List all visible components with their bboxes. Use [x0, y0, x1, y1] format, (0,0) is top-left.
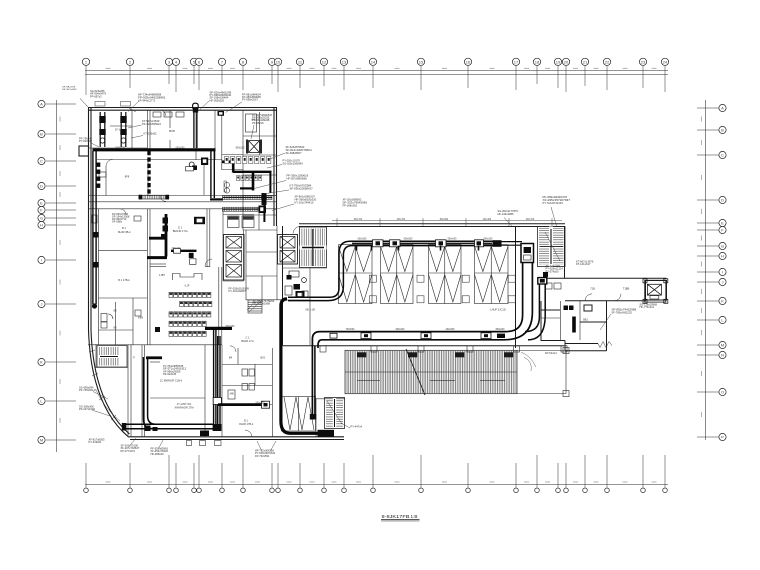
right dimension line [705, 100, 707, 440]
podium [173, 274, 203, 281]
svg-text:15: 15 [419, 59, 424, 64]
right wing riser duct [538, 278, 547, 284]
svg-text:E: E [40, 201, 43, 206]
column pads between AHUs [369, 275, 515, 303]
leader arcs terrace [521, 352, 536, 371]
annotation: below building centre [255, 450, 276, 458]
main riser duct (wide, white core) [312, 263, 532, 416]
wc fixtures left column [101, 314, 107, 322]
annotation: room mid-bottom block [163, 365, 187, 376]
urinal row [237, 176, 262, 181]
annotation: stair mid notes [229, 288, 250, 294]
svg-text:HF-968x20: HF-968x20 [151, 453, 165, 456]
dimension figures left [59, 117, 61, 122]
hall inner wall x=515 [515, 226, 517, 348]
elevator right wing end [643, 279, 668, 304]
small boxes below building [187, 441, 222, 446]
svg-text:16: 16 [466, 59, 471, 64]
top-right small rooms [242, 110, 244, 230]
annotation: room below corridor [112, 214, 130, 224]
svg-text:~1JF: ~1JF [184, 284, 190, 288]
exhaust bar south x205-232 [205, 327, 232, 330]
svg-text:BX1: BX1 [261, 356, 266, 360]
svg-text:D: D [721, 198, 724, 203]
band lower boundary [316, 398, 345, 400]
svg-text:P: P [721, 435, 724, 440]
interior lines wing rooms [541, 309, 560, 311]
svg-text:K: K [40, 360, 43, 365]
exhaust duct y404 [218, 403, 266, 406]
AHU units with zigzag coils [339, 245, 509, 304]
stair left of hall (vertical treads) [300, 227, 327, 268]
riser assembly 1 [100, 112, 105, 147]
svg-text:SF-907x483: SF-907x483 [62, 89, 77, 91]
svg-text:FP-168x362: FP-168x362 [343, 203, 358, 207]
left wall riser squares [97, 163, 101, 188]
main supply duct upper-left horizontal [93, 148, 216, 151]
svg-text:500x400: 500x400 [448, 238, 458, 240]
stair right of hall (horizontal treads) [538, 227, 566, 267]
svg-text:LHUF 2JC1D: LHUF 2JC1D [490, 308, 506, 312]
svg-text:AHU: AHU [251, 118, 257, 122]
svg-text:KT-101x749410: KT-101x749410 [295, 200, 314, 204]
VAV box top of main riser [521, 244, 534, 263]
svg-text:400x200: 400x200 [172, 248, 182, 250]
svg-text:FP-697x2: FP-697x2 [90, 95, 102, 98]
riser assembly 2 [121, 112, 126, 147]
small rooms right of elevators [246, 251, 277, 253]
partition top room band [88, 147, 147, 149]
riser duct x195 (double line) [194, 110, 197, 148]
annotation: top mid [210, 92, 232, 103]
annotation: far top-left [90, 90, 107, 98]
terrace outline right of band [517, 351, 566, 394]
annotation: above hall left [343, 198, 368, 208]
corridor walls [88, 195, 277, 197]
svg-text:PY-699x2057: PY-699x2057 [242, 99, 259, 102]
left dimension line [56, 100, 58, 452]
top dimension line [85, 70, 668, 72]
svg-text:8F05: 8F05 [169, 129, 175, 133]
dark marks bottom rooms [145, 426, 151, 432]
corner leader diagonal [80, 99, 89, 108]
svg-text:400-300: 400-300 [483, 219, 492, 221]
svg-text:M: M [721, 343, 724, 348]
bottom dimension line [85, 484, 668, 486]
annotation: small left [144, 132, 158, 136]
outer wall left edge [89, 108, 129, 437]
svg-text:T1BB: T1BB [623, 287, 630, 291]
hall interior dimension row [332, 218, 562, 226]
duct vertical x145 (double) [126, 357, 213, 429]
svg-text:12: 12 [322, 59, 327, 64]
right grid bubbles [719, 104, 726, 111]
bottom block partitions [141, 345, 143, 437]
dimension figures bottom [106, 481, 111, 483]
outer wall right edge of left wing [276, 108, 278, 226]
svg-text:D: D [40, 184, 43, 189]
svg-text:J: J [41, 302, 43, 307]
riser duct left vertical (double line) [93, 151, 96, 304]
top band interior extras [169, 110, 171, 128]
bottom grid ticks [85, 463, 87, 488]
svg-text:E: E [721, 221, 724, 226]
svg-text:HF-243x2985: HF-243x2985 [498, 212, 514, 216]
svg-text:24: 24 [663, 59, 668, 64]
leader curve bottom-left [96, 390, 120, 421]
svg-text:B 1 17B-k: B 1 17B-k [118, 278, 130, 282]
annotation: terrace level [545, 352, 557, 355]
svg-text:P: P [133, 356, 135, 360]
annotation: dim margin left [62, 87, 77, 92]
svg-text:B: B [721, 128, 724, 133]
svg-text:SF-636x20558417: SF-636x20558417 [290, 186, 314, 190]
svg-text:BHNJR 17l-k: BHNJR 17l-k [173, 229, 189, 233]
svg-text:J: J [722, 280, 724, 285]
left grid bubbles [38, 100, 45, 107]
svg-text:22: 22 [605, 59, 610, 64]
svg-text:1000x320: 1000x320 [115, 148, 126, 150]
svg-text:XF-944x11771: XF-944x11771 [138, 98, 156, 102]
exhaust duct west wall [281, 299, 318, 433]
annotation: band right leader [351, 426, 363, 429]
svg-text:I: I [41, 258, 42, 263]
svg-text:18: 18 [535, 59, 540, 64]
connector to VAV [502, 242, 523, 246]
outer wall top (left wing) [88, 107, 277, 109]
elevator lobby walls [222, 209, 224, 281]
svg-text:900x300: 900x300 [484, 238, 494, 240]
annotation: riser mid-left [142, 119, 161, 126]
svg-text:JF-1: JF-1 [115, 128, 121, 132]
svg-text:SG-525x1566945: SG-525x1566945 [283, 161, 304, 165]
svg-text:21: 21 [583, 59, 588, 64]
svg-text:700x500: 700x500 [346, 329, 356, 331]
svg-text:H: H [721, 254, 724, 259]
svg-text:800x320: 800x320 [236, 148, 246, 150]
svg-text:N: N [721, 353, 724, 358]
hall left wall [282, 226, 284, 345]
svg-text:C: C [721, 153, 724, 158]
AHU tall V coils bottom-left [282, 397, 316, 432]
svg-text:PY-447x4: PY-447x4 [351, 426, 363, 429]
top grid bubbles [82, 58, 89, 65]
room partitions mid band [97, 159, 148, 161]
svg-text:G: G [721, 244, 724, 249]
svg-text:800x200: 800x200 [496, 329, 506, 331]
annotation: above hall right [498, 209, 519, 216]
door arcs [205, 259, 212, 266]
svg-text:I: I [722, 270, 723, 275]
dark C fitting top of lecture room [194, 217, 205, 224]
dimension figures right [701, 117, 703, 122]
svg-text:K8B: K8B [138, 316, 143, 320]
right wing corridor top [541, 277, 667, 279]
svg-text:PF-709x30137: PF-709x30137 [79, 389, 97, 392]
small boxes above elevators [228, 216, 240, 228]
duct end blob [493, 240, 502, 247]
duct corner down x212.5 [211, 150, 214, 198]
svg-text:SF-785x0492225: SF-785x0492225 [612, 310, 633, 314]
annotation: wing corridor [576, 261, 594, 267]
annotation: top-left risers [138, 93, 166, 103]
svg-text:600x300: 600x300 [358, 238, 368, 240]
wc fixtures row dark dots [225, 157, 271, 164]
bottom grid bubbles [84, 488, 89, 493]
svg-text:HF-923x45: HF-923x45 [163, 373, 177, 376]
svg-text:14: 14 [371, 59, 376, 64]
dark fittings corridor east [259, 193, 267, 213]
svg-text:630x250: 630x250 [176, 148, 186, 150]
svg-text:HF-055x526: HF-055x526 [210, 99, 225, 102]
svg-text:8F8: 8F8 [125, 175, 130, 179]
vertical duct pair bottom-left block [214, 330, 220, 424]
hall top wall [299, 223, 565, 225]
riser squares x165 column [161, 218, 168, 239]
grille band A [223, 195, 273, 199]
svg-text:10: 10 [276, 59, 281, 64]
hall supply duct: equipment to top run [288, 241, 494, 300]
hall floor south wall [283, 345, 565, 347]
svg-text:XB 1-1B: XB 1-1B [305, 308, 315, 312]
svg-text:600x500: 600x500 [404, 238, 414, 240]
svg-text:1JB7: 1JB7 [159, 273, 165, 277]
svg-text:KT-195x92: KT-195x92 [144, 132, 158, 136]
svg-text:400-700: 400-700 [526, 219, 535, 221]
west equipment cluster [287, 275, 305, 298]
radial ticks on curved wall [89, 350, 116, 420]
svg-text:C: C [40, 159, 43, 164]
hall right wall [564, 226, 566, 278]
corner fitting with damper [201, 158, 208, 166]
svg-text:8HJR 3B-k: 8HJR 3B-k [118, 230, 131, 234]
duct size tags on top duct [115, 148, 505, 405]
branch stub into rooms y238 [149, 237, 167, 240]
svg-text:PF-077x672: PF-077x672 [121, 450, 136, 453]
misc dark risers left wall [93, 232, 160, 332]
svg-text:B81: B81 [583, 318, 588, 322]
band diagonal brace [406, 349, 425, 395]
svg-text:19: 19 [556, 59, 561, 64]
svg-text:71B: 71B [590, 287, 595, 291]
band top dark vents [357, 352, 514, 357]
svg-text:PY-716x0733134: PY-716x0733134 [543, 201, 564, 205]
svg-text:A: A [721, 106, 724, 111]
svg-text:8HJR 17B-k: 8HJR 17B-k [239, 422, 254, 426]
small dim marks in band [357, 380, 505, 382]
svg-text:A: A [40, 102, 43, 107]
svg-text:G: G [40, 216, 43, 221]
outer wall bottom (left wing) [128, 436, 344, 438]
svg-text:300-700: 300-700 [397, 219, 406, 221]
duct over lecture room [171, 250, 197, 252]
right wing end cap [646, 281, 667, 301]
annotation column: courtyard leaders [286, 145, 313, 155]
svg-text:XF-088x: XF-088x [112, 222, 123, 224]
stair small left-wing [97, 346, 127, 368]
annotation: bottom-left stack [79, 387, 97, 393]
svg-text:O: O [721, 390, 724, 395]
svg-text:PF-352x6: PF-352x6 [252, 122, 264, 125]
annotation: inside top-right rooms [252, 114, 273, 125]
elevator top-left wing [249, 141, 260, 153]
wc duct zigzag [222, 160, 235, 163]
right grid ticks [697, 107, 719, 109]
svg-text:KT-219x01: KT-219x01 [89, 441, 103, 444]
room labels [114, 118, 630, 426]
seminar room walls [206, 209, 208, 267]
svg-text:13: 13 [342, 59, 347, 64]
svg-text:800-900: 800-900 [440, 219, 449, 221]
svg-text:PF-227x1900: PF-227x1900 [79, 408, 96, 411]
svg-text:PY-101x02807: PY-101x02807 [229, 290, 247, 293]
svg-text:K: K [721, 299, 724, 304]
duct drop x148 (blocked wall) [147, 151, 150, 196]
svg-text:8-8JK17FB: 8-8JK17FB [382, 514, 410, 519]
svg-text:H: H [40, 223, 43, 228]
svg-text:M: M [40, 438, 43, 443]
annotation: right stair foot [546, 265, 564, 273]
annotation: top right [242, 94, 261, 102]
top grid ticks [85, 66, 87, 95]
svg-text:PF-310x835924: PF-310x835924 [142, 122, 161, 126]
rooms right column [243, 174, 277, 176]
svg-text:KT-141x617: KT-141x617 [576, 263, 591, 266]
svg-text:23: 23 [641, 59, 646, 64]
svg-text:XHNRHJIR 1TM: XHNRHJIR 1TM [174, 405, 193, 409]
stair small mid (lobby) [248, 300, 262, 313]
grille band B [223, 207, 259, 211]
svg-text:HF-057x9860960: HF-057x9860960 [287, 176, 308, 180]
svg-text:PY-579x50: PY-579x50 [546, 270, 560, 273]
elevator pair west of hall stair [278, 235, 298, 265]
svg-text:XF-498x8607: XF-498x8607 [286, 151, 302, 155]
left edge protrusion box [79, 146, 89, 156]
right wing interior marks [560, 301, 562, 340]
inline fittings on top duct [373, 240, 484, 247]
svg-text:FP-514x4: FP-514x4 [545, 352, 557, 355]
right wing corridor bottom [565, 300, 646, 302]
annotation: wing room leader [612, 308, 637, 315]
svg-text:FP-142x61868: FP-142x61868 [253, 303, 271, 306]
right wing lower rooms outline [541, 301, 565, 341]
svg-text:600x200: 600x200 [396, 329, 406, 331]
rooms band3 [88, 344, 222, 346]
rooms below corridor [98, 209, 100, 345]
dim boxes above top wall [95, 102, 131, 107]
title [382, 514, 418, 519]
svg-text:630x250: 630x250 [226, 326, 236, 328]
wash basins [224, 182, 229, 187]
inline fittings on bottom duct [330, 333, 491, 339]
svg-text:600-700: 600-700 [354, 219, 363, 221]
wc fixtures row [222, 154, 243, 156]
svg-text:BHJR 17-k: BHJR 17-k [241, 339, 254, 343]
svg-text:. 1:B: . 1:B [408, 514, 417, 519]
svg-text:FP-732x591: FP-732x591 [255, 455, 270, 458]
svg-text:J4B: J4B [229, 392, 234, 396]
wc block bottom [221, 345, 223, 437]
stair bottom centre (horizontal treads) [325, 398, 345, 429]
hatched trellis band [345, 350, 517, 393]
svg-text:B 1: B 1 [122, 226, 126, 230]
column squares hall south [320, 346, 326, 352]
hall west equipment room [276, 226, 278, 300]
elevator bank left wing (3 cars) [224, 235, 245, 281]
duct L seminar room [165, 214, 168, 257]
svg-text:HF-774x211: HF-774x211 [640, 306, 655, 309]
svg-text:B: B [40, 132, 43, 137]
left grid ticks [46, 103, 76, 105]
wc stall fixtures bottom [242, 369, 248, 376]
dimension figures top [106, 67, 111, 69]
corridor grille band west [140, 195, 169, 199]
seating rows [169, 292, 212, 336]
duct end cap bottom [310, 414, 316, 420]
svg-text:20: 20 [564, 59, 569, 64]
right wing room equipment [572, 317, 576, 333]
svg-text:1C 8NRHJR C1B-k: 1C 8NRHJR C1B-k [160, 379, 183, 383]
small stair room bottom-left [95, 344, 97, 368]
annotation: far-left margin [79, 138, 93, 144]
AHU inlet stubs [357, 246, 479, 251]
corridor duct link [210, 198, 223, 200]
svg-text:17: 17 [514, 59, 519, 64]
svg-text:500x250: 500x250 [256, 402, 266, 404]
svg-text:B4: B4 [229, 356, 233, 360]
svg-text:400x300: 400x300 [446, 329, 456, 331]
lecture room right wall [221, 267, 223, 345]
